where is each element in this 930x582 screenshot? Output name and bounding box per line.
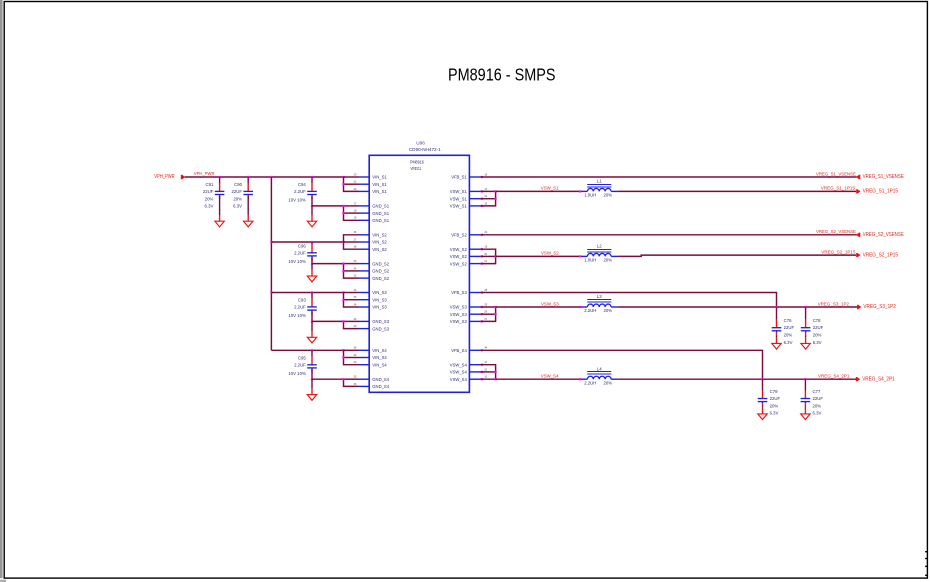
node L4 left pin: [579, 378, 581, 380]
svg-text:C76: C76: [784, 318, 792, 323]
node junction VSW_S3 bar row18: [495, 306, 497, 308]
svg-text:6.3V: 6.3V: [784, 340, 793, 345]
svg-text:20%: 20%: [770, 403, 779, 408]
svg-text:10V 10%: 10V 10%: [288, 259, 306, 264]
inductor L2 1.0UH 20%: [581, 255, 587, 257]
pin VSW_S3 connection dot: [481, 306, 483, 308]
off-page connector VREG_S3_1P2: [857, 305, 861, 309]
svg-text:VIN_S1: VIN_S1: [372, 189, 387, 194]
svg-text:VREG_S4_2P1: VREG_S4_2P1: [862, 376, 895, 382]
pin VSW_S2 (pin 21) stub right: [469, 263, 480, 265]
pin GND_S1 (pin 18) stub left: [359, 212, 370, 214]
svg-text:VIN_S2: VIN_S2: [372, 247, 387, 252]
svg-text:GND_S2: GND_S2: [372, 261, 389, 266]
pin VFB_S4 (pin 34) stub right: [469, 349, 480, 351]
pin VIN_S2 (pin 26) stub left: [359, 234, 370, 236]
svg-text:C96: C96: [298, 243, 306, 248]
svg-text:L2: L2: [597, 244, 602, 249]
capacitor C78 22UF 20% 6.3V: [805, 307, 807, 320]
wire VSW_S4 pin bar: [480, 365, 495, 380]
wire GND_S4 net: [312, 378, 344, 380]
node junction GND_S4 bar top: [342, 378, 344, 380]
pin VSW_S4 (pin 33) stub right: [469, 378, 480, 380]
svg-text:1.0UH: 1.0UH: [584, 258, 596, 263]
node L2 left pin: [579, 255, 581, 257]
svg-text:2.2UF: 2.2UF: [294, 362, 306, 367]
pin VSW_S4 connection dot: [481, 364, 483, 366]
pin VFB_S4 connection dot: [481, 349, 483, 351]
svg-text:C95: C95: [298, 355, 306, 360]
wire VREG_S1_1P15: [618, 190, 856, 192]
wire VFB_S4 feedback: [480, 350, 762, 379]
svg-text:VREG_S3_1P2: VREG_S3_1P2: [863, 304, 896, 310]
wire VSW_S1 pin bar: [480, 191, 495, 206]
svg-text:GND_S4: GND_S4: [372, 377, 389, 382]
svg-text:GND_S3: GND_S3: [372, 326, 389, 331]
pin VSW_S3 (pin 25) stub right: [469, 306, 480, 308]
svg-text:VREG_S1_1P15: VREG_S1_1P15: [863, 189, 898, 195]
ground under C76: [776, 337, 778, 343]
node junction S2 rail at C96: [311, 241, 313, 243]
off-page connector VPH_PWR input port: [181, 175, 185, 179]
op-amp U1 IC U96 PM8916 body: [369, 155, 469, 392]
wire GND_S2 net: [312, 263, 344, 265]
svg-text:20%: 20%: [604, 258, 613, 263]
wire VIN_S3 rail: [271, 292, 343, 294]
wire VREG_S2_1P15 with jog: [618, 255, 856, 256]
pin VSW_S4 connection dot: [481, 378, 483, 380]
svg-text:C94: C94: [298, 182, 306, 187]
svg-text:VPH_PWR: VPH_PWR: [194, 171, 215, 176]
capacitor C76 22UF 20% 6.3V: [776, 307, 778, 320]
svg-text:VPH_PWR: VPH_PWR: [154, 174, 175, 180]
svg-text:VREG_S3_1P2: VREG_S3_1P2: [818, 301, 850, 306]
svg-text:22UF: 22UF: [813, 325, 824, 330]
node junction C95 to GND_S4: [311, 378, 313, 380]
pin VSW_S2 connection dot: [481, 255, 483, 257]
node junction GND_S2 bar top: [342, 263, 344, 265]
title block edge ticks: [925, 551, 927, 552]
node L3 left pin: [579, 306, 581, 308]
off-page connector VREG_S1_VSENSE: [856, 175, 860, 179]
svg-text:22UF: 22UF: [231, 189, 242, 194]
svg-text:PM8916: PM8916: [410, 160, 424, 165]
pin VSW_S2 (pin 20) stub right: [469, 255, 480, 257]
svg-text:VIN_S3: VIN_S3: [372, 290, 387, 295]
svg-text:6.3V: 6.3V: [233, 204, 242, 209]
capacitor C94 2.2UF 10V 10%: [311, 177, 313, 183]
svg-text:C78: C78: [813, 318, 821, 323]
wire VSW_S1 to L1: [496, 190, 582, 192]
svg-text:22UF: 22UF: [784, 325, 795, 330]
svg-text:VIN_S2: VIN_S2: [372, 240, 387, 245]
pin VIN_S4 (pin 38) stub left: [359, 349, 370, 351]
svg-text:GND_S1: GND_S1: [372, 218, 389, 223]
svg-text:VFB_S3: VFB_S3: [451, 290, 467, 295]
node junction VREG_S3_1P2 at C78: [805, 306, 807, 308]
wire GND_S1 net: [312, 205, 344, 207]
svg-text:VIN_S3: VIN_S3: [372, 305, 387, 310]
svg-text:C79: C79: [770, 389, 778, 394]
svg-text:VSW_S2: VSW_S2: [541, 251, 559, 256]
svg-text:GND_S2: GND_S2: [372, 269, 389, 274]
svg-text:C91: C91: [206, 182, 214, 187]
svg-text:20%: 20%: [784, 333, 793, 338]
svg-text:VREG_S2_VSENSE: VREG_S2_VSENSE: [863, 232, 905, 238]
wire VSW_S2 pin bar: [480, 249, 495, 263]
wire VPH_PWR rail: [185, 176, 344, 178]
svg-text:20%: 20%: [813, 333, 822, 338]
svg-text:VSW_S1: VSW_S1: [450, 189, 468, 194]
svg-text:L1: L1: [597, 179, 602, 184]
node junction bus to S3 rail: [270, 291, 272, 293]
svg-text:VSW_S3: VSW_S3: [450, 305, 468, 310]
svg-text:10V 10%: 10V 10%: [288, 313, 306, 318]
node junction VIN_S4 bar mid: [342, 356, 344, 358]
svg-text:CD90-NH472-1: CD90-NH472-1: [409, 147, 441, 152]
svg-text:22UF: 22UF: [203, 189, 214, 194]
svg-text:VSW_S4: VSW_S4: [450, 362, 468, 367]
svg-text:VIN_S2: VIN_S2: [372, 233, 387, 238]
svg-text:20%: 20%: [604, 380, 613, 385]
svg-text:VSW_S1: VSW_S1: [450, 204, 468, 209]
pin VSW_S3 connection dot: [481, 320, 483, 322]
pin VFB_S2 connection dot: [481, 234, 483, 236]
pin VSW_S1 (pin 13) stub right: [469, 190, 480, 192]
svg-text:VREG_S2_VSENSE: VREG_S2_VSENSE: [816, 229, 856, 234]
inductor L1 1.0UH 20%: [581, 190, 587, 192]
node junction GND_S1 bar top: [342, 205, 344, 207]
pin VSW_S2 (pin 19) stub right: [469, 248, 480, 250]
svg-text:VIN_S4: VIN_S4: [372, 348, 387, 353]
svg-text:10V 10%: 10V 10%: [288, 198, 306, 203]
svg-text:VFB_S2: VFB_S2: [451, 233, 467, 238]
node junction C93 to GND_S3: [311, 320, 313, 322]
svg-text:PM8916 - SMPS: PM8916 - SMPS: [448, 65, 556, 85]
svg-text:10V 10%: 10V 10%: [288, 371, 306, 376]
pin VSW_S3 (pin 26) stub right: [469, 313, 480, 315]
capacitor C91 22UF 20% 6.3V: [219, 177, 221, 183]
svg-text:VSW_S2: VSW_S2: [450, 247, 468, 252]
node junction VSW_S4 bar row27: [495, 371, 497, 373]
pin VSW_S1 (pin 15) stub right: [469, 205, 480, 207]
off-page connector VREG_S1_1P15: [856, 189, 860, 193]
node junction VSW_S4 bar row28: [495, 378, 497, 380]
wire VIN_S3 pin bar: [344, 293, 359, 308]
capacitor C90 22UF 20% 6.3V: [247, 177, 249, 183]
svg-text:VSW_S3: VSW_S3: [450, 319, 468, 324]
node junction VREG_S4_2P1 at C79: [761, 378, 763, 380]
ground under C91: [219, 215, 221, 221]
node junction VSW_S1 bar row3: [495, 198, 497, 200]
node junction bus to S2 rail: [270, 241, 272, 243]
svg-text:VREG_S4_2P1: VREG_S4_2P1: [818, 374, 850, 379]
svg-text:20%: 20%: [205, 196, 214, 201]
node junction VREG_S3_1P2 at C76: [775, 306, 777, 308]
pin VIN_S3 (pin 33) stub left: [359, 299, 370, 301]
inductor L4 2.2UH 20%: [581, 378, 587, 380]
svg-text:L3: L3: [597, 294, 602, 299]
svg-text:6.3V: 6.3V: [205, 204, 214, 209]
wire VIN_S2 rail: [271, 241, 343, 243]
node junction rail at VIN_S1 bar: [342, 176, 344, 178]
node junction S2 rail at bar: [342, 241, 344, 243]
pin VFB_S1 connection dot: [481, 176, 483, 178]
wire VSW_S2 to L2: [496, 255, 582, 257]
svg-text:VIN_S3: VIN_S3: [372, 297, 387, 302]
svg-text:VREG_S1_1P15: VREG_S1_1P15: [821, 186, 856, 191]
wire VREG_S3_1P2: [618, 306, 857, 308]
svg-text:VSW_S4: VSW_S4: [450, 377, 468, 382]
pin VSW_S1 connection dot: [481, 190, 483, 192]
svg-text:20%: 20%: [233, 196, 242, 201]
svg-text:VSW_S1: VSW_S1: [450, 196, 468, 201]
node junction rail at C94: [311, 176, 313, 178]
svg-text:2.2UF: 2.2UF: [294, 250, 306, 255]
node junction VSW_S1 bar row2: [495, 190, 497, 192]
node junction S3 rail at bar: [342, 291, 344, 293]
node junction rail at C91: [219, 176, 221, 178]
svg-text:C77: C77: [813, 389, 821, 394]
pin VFB_S2 (pin 22) stub right: [469, 234, 480, 236]
capacitor C93 2.2UF 10V 10%: [311, 293, 313, 299]
pin VSW_S2 connection dot: [481, 248, 483, 250]
svg-text:22UF: 22UF: [813, 396, 824, 401]
node junction S3 rail at C93: [311, 291, 313, 293]
svg-text:20%: 20%: [813, 403, 822, 408]
svg-text:GND_S4: GND_S4: [372, 384, 389, 389]
capacitor C95 2.2UF 10V 10%: [311, 350, 313, 357]
page left gray edge: [0, 0, 3, 578]
node junction C94 to GND_S1: [311, 205, 313, 207]
pin VSW_S2 connection dot: [481, 263, 483, 265]
pin GND_S3 (pin 29) stub left: [359, 320, 370, 322]
inductor L3 2.2UH 20%: [581, 306, 587, 308]
svg-text:2.2UH: 2.2UH: [584, 308, 596, 313]
node junction S4 rail at C95: [311, 349, 313, 351]
svg-text:VIN_S4: VIN_S4: [372, 355, 387, 360]
svg-text:VSW_S3: VSW_S3: [450, 312, 468, 317]
off-page connector VREG_S2_1P15: [856, 253, 860, 257]
node junction VREG_S4_2P1 at C77: [804, 378, 806, 380]
svg-text:6.3V: 6.3V: [770, 411, 779, 416]
pin VSW_S1 connection dot: [481, 205, 483, 207]
wire VSW_S3 pin bar: [480, 307, 495, 321]
pin VIN_S3 (pin 34) stub left: [359, 306, 370, 308]
pin GND_S4 (pin 35) stub left: [359, 378, 370, 380]
pin VIN_S4 (pin 40) stub left: [359, 364, 370, 366]
pin GND_S2 (pin 25) stub left: [359, 277, 370, 279]
off-page connector VREG_S2_VSENSE: [856, 233, 860, 237]
svg-text:L4: L4: [597, 366, 602, 371]
pin VSW_S4 (pin 31) stub right: [469, 364, 480, 366]
pin VIN_S4 (pin 39) stub left: [359, 357, 370, 359]
ground under C95: [311, 388, 313, 394]
wire GND_S3 net: [312, 320, 344, 322]
node junction VSW_S2 bar row11: [495, 255, 497, 257]
pin GND_S1 (pin 17) stub left: [359, 205, 370, 207]
svg-text:GND_S2: GND_S2: [372, 276, 389, 281]
svg-text:VREG_S2_1P15: VREG_S2_1P15: [821, 249, 856, 254]
node junction GND_S3 bar top: [342, 320, 344, 322]
pin VIN_S1 (pin 22) stub left: [359, 190, 370, 192]
svg-text:22UF: 22UF: [770, 396, 781, 401]
svg-text:2.2UF: 2.2UF: [294, 304, 306, 309]
wire VPH_PWR vertical bus: [270, 177, 272, 350]
wire VFB_S3 feedback: [480, 293, 776, 308]
ground under C79: [762, 408, 764, 414]
wire VFB_S2 / VREG_S2_VSENSE: [480, 234, 856, 236]
pin VSW_S3 connection dot: [481, 313, 483, 315]
node junction VIN_S1 bar row1: [342, 183, 344, 185]
svg-text:VREG_S2_1P15: VREG_S2_1P15: [863, 252, 898, 258]
svg-text:GND_S1: GND_S1: [372, 211, 389, 216]
node junction C96 to GND_S2: [311, 263, 313, 265]
pin VIN_S2 (pin 27) stub left: [359, 241, 370, 243]
ground under C90: [247, 215, 249, 221]
svg-text:C90: C90: [234, 182, 242, 187]
svg-text:VSW_S2: VSW_S2: [450, 254, 468, 259]
pin VFB_S1 (pin 16) stub right: [469, 176, 480, 178]
node junction GND_S1 bar mid: [342, 212, 344, 214]
wire VIN_S4 rail: [271, 349, 343, 351]
svg-text:2.2UF: 2.2UF: [294, 189, 306, 194]
svg-text:VSW_S4: VSW_S4: [450, 370, 468, 375]
pin GND_S2 (pin 23) stub left: [359, 263, 370, 265]
pin VIN_S3 (pin 32) stub left: [359, 292, 370, 294]
wire VIN_S4 pin bar: [344, 350, 359, 364]
svg-text:VIN_S1: VIN_S1: [372, 175, 387, 180]
svg-text:VIN_S1: VIN_S1: [372, 182, 387, 187]
wire VSW_S3 to L3: [496, 306, 582, 308]
pin VIN_S1 (pin 21) stub left: [359, 183, 370, 185]
svg-text:VREG1: VREG1: [410, 166, 421, 171]
svg-text:1.0UH: 1.0UH: [584, 193, 596, 198]
off-page connector VREG_S4_2P1: [856, 377, 860, 381]
node junction rail at bus: [270, 176, 272, 178]
svg-text:20%: 20%: [604, 308, 613, 313]
pin VFB_S3 connection dot: [481, 291, 483, 293]
svg-text:VFB_S1: VFB_S1: [451, 175, 467, 180]
wire VREG_S4_2P1: [618, 378, 856, 380]
node L1 left pin: [579, 190, 581, 192]
svg-text:VREG_S1_VSENSE: VREG_S1_VSENSE: [816, 171, 856, 176]
svg-text:VSW_S2: VSW_S2: [450, 261, 468, 266]
capacitor C96 2.2UF 10V 10%: [311, 242, 313, 245]
pin GND_S1 (pin 19) stub left: [359, 219, 370, 221]
pin VSW_S4 connection dot: [481, 371, 483, 373]
svg-text:VREG_S1_VSENSE: VREG_S1_VSENSE: [863, 174, 905, 180]
capacitor C79 22UF 20% 6.3V: [762, 379, 764, 390]
node junction rail at C90: [247, 176, 249, 178]
svg-text:U96: U96: [416, 141, 425, 146]
pin VSW_S1 connection dot: [481, 198, 483, 200]
svg-text:VFB_S4: VFB_S4: [451, 348, 467, 353]
ground under C77: [804, 408, 806, 414]
svg-text:VIN_S4: VIN_S4: [372, 362, 387, 367]
svg-text:C93: C93: [298, 297, 306, 302]
wire VIN_S1 pin bar: [344, 177, 359, 191]
wire VSW_S4 to L4: [496, 378, 582, 380]
pin VSW_S4 (pin 32) stub right: [469, 371, 480, 373]
svg-text:VSW_S3: VSW_S3: [541, 301, 559, 306]
pin GND_S3 (pin 30) stub left: [359, 328, 370, 330]
capacitor C77 22UF 20% 6.3V: [804, 379, 806, 390]
svg-text:20%: 20%: [604, 193, 613, 198]
svg-text:GND_S3: GND_S3: [372, 319, 389, 324]
svg-text:VSW_S4: VSW_S4: [541, 374, 559, 379]
ground under C78: [805, 337, 807, 343]
ground under C96: [311, 270, 313, 276]
node junction S4 rail at bar: [342, 349, 344, 351]
wire VFB_S1 / VREG_S1_VSENSE: [480, 176, 856, 178]
svg-text:6.3V: 6.3V: [813, 340, 822, 345]
pin VFB_S3 (pin 28) stub right: [469, 292, 480, 294]
svg-text:2.2UH: 2.2UH: [584, 380, 596, 385]
ground under C93: [311, 331, 313, 337]
pin GND_S2 (pin 24) stub left: [359, 270, 370, 272]
pin VSW_S3 (pin 27) stub right: [469, 320, 480, 322]
svg-text:VSW_S1: VSW_S1: [541, 186, 559, 191]
svg-text:6.3V: 6.3V: [813, 411, 822, 416]
node junction GND_S2 bar mid: [342, 270, 344, 272]
node junction VSW_S3 bar row19: [495, 313, 497, 315]
pin VIN_S2 (pin 28) stub left: [359, 248, 370, 250]
node junction VIN_S3 bar mid: [342, 299, 344, 301]
pin VSW_S1 (pin 14) stub right: [469, 198, 480, 200]
wire VIN_S2 pin bar: [344, 235, 359, 249]
ground under C94: [311, 215, 313, 221]
pin GND_S4 (pin 36) stub left: [359, 385, 370, 387]
svg-text:GND_S1: GND_S1: [372, 204, 389, 209]
pin VIN_S1 (pin 20) stub left: [359, 176, 370, 178]
